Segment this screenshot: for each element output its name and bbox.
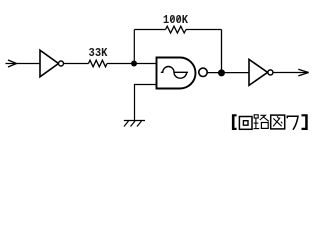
glyph 【 (232, 114, 237, 130)
wire: feedback top right segment (186, 29, 222, 31)
wire: U2 output to node B (207, 72, 249, 74)
glyph 7 (full-width) (287, 116, 298, 129)
wire: U2 bottom input (135, 85, 157, 121)
label: 100K value of R2 (slashed zeros) (163, 13, 188, 27)
NAND gate U2 (Schmitt trigger) (157, 58, 208, 89)
wire: U1 output to R1 (64, 63, 89, 65)
ground (124, 121, 145, 127)
resistor R1 (89, 60, 108, 67)
wire: feedback top left segment (134, 29, 165, 31)
glyph 】 (302, 114, 308, 130)
node B junction dot (218, 69, 225, 76)
U2 output bubble (199, 68, 207, 76)
input signal arrow (8, 60, 17, 67)
glyph 回 (239, 117, 252, 130)
wire: feedback left vertical (133, 30, 135, 64)
glyph 図 (271, 115, 285, 129)
resistor R2 (166, 26, 187, 33)
hysteresis symbol inside U2 (161, 67, 188, 79)
svg-text:100K: 100K (163, 13, 188, 27)
wire: feedback right vertical (221, 30, 223, 73)
glyph 路 (254, 115, 269, 129)
inverter U3 (249, 59, 273, 85)
caption: 【回路図7】 (hand-drawn glyphs) (232, 114, 308, 130)
wire: R1 to U2 top input (through node A) (107, 63, 157, 65)
wire: U3 output line (273, 72, 309, 74)
wire: input line (6, 63, 41, 65)
inverter U1 (40, 50, 64, 77)
node A junction dot (131, 61, 137, 67)
svg-text:33K: 33K (89, 46, 108, 60)
output signal arrow (298, 69, 308, 76)
